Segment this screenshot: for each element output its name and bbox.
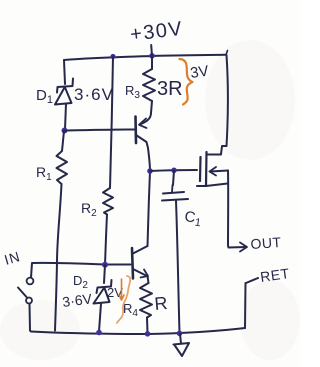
node Q2 base / R2 / D2 xyxy=(102,262,108,268)
capacitor C1 top plate xyxy=(163,192,184,194)
svg-text:R: R xyxy=(154,293,169,314)
resistor R1 xyxy=(57,131,68,184)
wire collector bus Q1-Q2 xyxy=(148,148,151,246)
node D1/R1/base junction xyxy=(62,128,68,134)
diode D1 lower lead xyxy=(65,104,66,130)
diode D2 lower lead xyxy=(99,304,101,332)
switch lower contact xyxy=(26,298,32,304)
ground symbol xyxy=(174,343,190,356)
svg-text:RET: RET xyxy=(259,265,290,285)
capacitor C1 tick xyxy=(171,185,174,192)
wire R3 to Q1 emitter xyxy=(151,101,152,113)
svg-text:R4: R4 xyxy=(123,301,138,319)
svg-text:IN: IN xyxy=(2,248,22,268)
svg-text:OUT: OUT xyxy=(250,234,282,252)
capacitor C1 top lead xyxy=(173,171,174,186)
resistor R3 lead xyxy=(151,56,153,69)
node top-left of R2 branch xyxy=(110,54,115,59)
transistor Q2 emitter arrow (NPN) xyxy=(133,269,147,276)
wire mid to gate xyxy=(150,170,197,171)
wire OUT arrow xyxy=(228,246,246,248)
node C1 tap xyxy=(171,168,177,174)
svg-text:3R: 3R xyxy=(157,78,183,100)
diode D2 top lead xyxy=(104,265,105,283)
wire Q2 emitter to R4 xyxy=(148,276,149,283)
mosfet source body arrow xyxy=(210,171,228,172)
node +30V / R3 xyxy=(149,53,155,59)
svg-text:R2: R2 xyxy=(81,200,97,219)
mosfet gate bar xyxy=(199,157,202,181)
wire bottom rail xyxy=(31,328,245,334)
switch lever xyxy=(18,288,27,298)
wire right rail (drain side) xyxy=(227,55,228,146)
svg-text:D1: D1 xyxy=(36,87,53,106)
capacitor C1 bottom lead xyxy=(176,201,180,333)
svg-text:3V: 3V xyxy=(189,63,210,82)
annotation brace 3V xyxy=(180,59,193,105)
mosfet channel bar xyxy=(205,152,208,186)
wire base of Q2 xyxy=(105,264,131,266)
mosfet source bottom xyxy=(197,184,228,187)
resistor R2 xyxy=(103,188,113,215)
capacitor C1 bottom plate xyxy=(162,199,188,201)
transistor Q1 emitter arrow (PNP) xyxy=(140,113,152,125)
svg-text:R1: R1 xyxy=(36,164,52,183)
wire switch to bottom rail xyxy=(30,304,32,332)
wire top rail xyxy=(64,55,226,60)
wire R1 down to bottom rail xyxy=(55,184,62,331)
annotation curve R4 xyxy=(117,276,130,323)
resistor R4 xyxy=(140,283,152,318)
switch upper contact xyxy=(27,278,34,285)
svg-text:3·6V: 3·6V xyxy=(61,290,93,310)
zener D2 cathode bar xyxy=(97,280,112,293)
wire RET tick xyxy=(246,278,258,283)
zener D2 triangle xyxy=(94,288,110,304)
transistor Q2 base bar xyxy=(132,248,133,279)
wire right rail to OUT corner xyxy=(227,171,229,246)
svg-text:R3: R3 xyxy=(125,83,140,101)
diode D1 lead from top rail xyxy=(64,60,65,84)
mosfet drain xyxy=(207,146,227,155)
tick at top right corner xyxy=(226,51,228,55)
wire R2 branch from top rail xyxy=(110,57,113,189)
svg-text:D2: D2 xyxy=(73,273,88,291)
svg-text:C1: C1 xyxy=(183,208,202,229)
wire R2 down to Q2 base node xyxy=(105,215,107,265)
wire +30V stub xyxy=(150,45,153,56)
wire IN corner xyxy=(31,263,105,278)
transistor Q2 collector xyxy=(133,246,148,254)
node collector / mid wire xyxy=(147,168,153,174)
annotation arrow 2V xyxy=(119,279,124,300)
svg-text:+30V: +30V xyxy=(129,18,185,46)
resistor R3 xyxy=(143,69,155,101)
transistor Q1 collector xyxy=(136,135,148,148)
wire R4 to bottom rail xyxy=(146,318,149,334)
zener D1 cathode bar xyxy=(57,79,73,93)
node D2 bottom xyxy=(96,330,102,336)
node C1 / ground xyxy=(177,331,183,337)
ground lead xyxy=(180,334,181,344)
node R4 bottom xyxy=(145,331,151,337)
zener D1 triangle xyxy=(55,88,72,105)
wire RET drop xyxy=(244,283,247,328)
svg-text:3·6V: 3·6V xyxy=(74,85,114,104)
wire base of Q1 xyxy=(65,130,135,131)
transistor Q1 base bar xyxy=(134,117,137,144)
